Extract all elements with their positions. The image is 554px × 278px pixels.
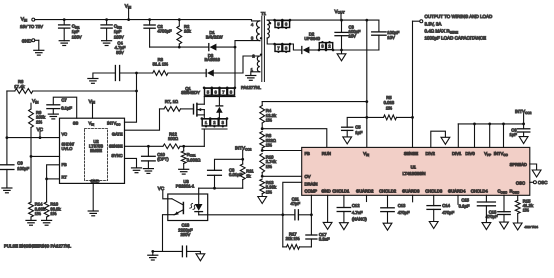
ground (C7) xyxy=(48,113,58,115)
wire U2 GATE xyxy=(125,109,160,130)
ground (DIV2, triangle) xyxy=(441,137,450,144)
svg-text:250V: 250V xyxy=(181,232,191,237)
svg-text:1%: 1% xyxy=(36,119,42,124)
svg-text:C9: C9 xyxy=(17,160,23,165)
wire OV (U1) xyxy=(262,175,302,177)
svg-text:0.018: 0.018 xyxy=(384,100,395,105)
capacitor C14 xyxy=(433,195,435,205)
wire SPREAD to ground xyxy=(530,164,537,170)
wire U2 SYNC to ground xyxy=(125,158,137,168)
capacitor C9 xyxy=(0,164,14,166)
svg-text:10k: 10k xyxy=(184,29,192,34)
wire rail to pin 4 xyxy=(252,20,260,21)
svg-text:SS: SS xyxy=(73,120,79,125)
svg-text:PULSE ENGINEERING PA1277NL: PULSE ENGINEERING PA1277NL xyxy=(4,244,72,249)
T1 primary bias winding 2-1 xyxy=(257,56,259,72)
svg-text:1%: 1% xyxy=(50,211,56,216)
svg-text:DIV0: DIV0 xyxy=(465,151,475,156)
wire output terminal riser xyxy=(412,21,414,117)
wire FB/RT xyxy=(47,165,60,179)
capacitor C2 xyxy=(148,18,151,21)
ground (U2 GND) xyxy=(88,210,98,212)
svg-text:100V: 100V xyxy=(114,34,124,39)
capacitor C10 xyxy=(147,146,149,156)
resistor R8 xyxy=(260,132,265,149)
resistor R14 xyxy=(30,156,32,202)
svg-text:R7, 1Ω: R7, 1Ω xyxy=(165,99,178,104)
svg-text:Si8848DY: Si8848DY xyxy=(181,90,200,95)
svg-text:LT4180EGN: LT4180EGN xyxy=(403,171,426,176)
svg-text:1%: 1% xyxy=(523,208,529,213)
ground (input) xyxy=(34,49,44,51)
wire DIV2 to ground xyxy=(431,131,446,147)
wire VOUT sense drop xyxy=(366,20,368,147)
capacitor C3 xyxy=(340,19,343,22)
opto transistor xyxy=(182,203,184,214)
svg-text:18V TO 72V: 18V TO 72V xyxy=(20,24,43,29)
svg-text:GUARD4: GUARD4 xyxy=(448,189,466,194)
svg-text:0.1µF: 0.1µF xyxy=(61,106,72,111)
ground (C18 secondary, triangle) xyxy=(196,254,205,261)
svg-text:1000µF LOAD CAPACITANCE: 1000µF LOAD CAPACITANCE xyxy=(425,36,486,41)
wire COMP xyxy=(310,195,312,215)
resistor R10 xyxy=(260,154,265,173)
svg-text:51.1 1%: 51.1 1% xyxy=(153,62,169,67)
capacitor C16 xyxy=(503,195,505,211)
ground (C15, triangle) xyxy=(482,223,491,230)
resistor R16 xyxy=(46,179,48,202)
svg-text:1%: 1% xyxy=(266,118,272,123)
svg-text:3.3nF: 3.3nF xyxy=(319,236,330,241)
opto coupling arrows xyxy=(190,203,193,208)
T1 pins 3 2 xyxy=(319,43,325,50)
svg-text:1µF: 1µF xyxy=(509,132,517,137)
OSC terminal xyxy=(530,181,534,183)
svg-text:50V: 50V xyxy=(116,50,124,55)
svg-text:3.3V, 3A: 3.3V, 3A xyxy=(425,21,442,26)
svg-text:COMP: COMP xyxy=(305,189,318,194)
T1 primary winding 4-3 xyxy=(257,21,260,41)
ground (C10) xyxy=(143,168,153,170)
ground (SYNC) xyxy=(132,167,142,169)
svg-text:BAV21W: BAV21W xyxy=(206,34,223,39)
svg-text:4.7nF: 4.7nF xyxy=(352,210,363,215)
resistor R11 xyxy=(241,158,244,161)
svg-text:C15: C15 xyxy=(461,197,469,202)
ground (C9) xyxy=(2,187,12,189)
svg-text:RT: RT xyxy=(62,174,68,179)
wire opto collector xyxy=(163,191,172,199)
svg-text:SENSE: SENSE xyxy=(404,151,418,156)
svg-text:10V: 10V xyxy=(387,35,395,40)
ground (RCS1) xyxy=(179,168,189,170)
svg-text:100V: 100V xyxy=(72,34,82,39)
svg-text:GND: GND xyxy=(22,38,32,43)
svg-text:CHOLD2: CHOLD2 xyxy=(379,189,397,194)
ground (C5, triangle) xyxy=(343,137,352,144)
ground (C12, triangle) xyxy=(340,223,349,230)
wire sense top to divider xyxy=(262,101,367,103)
ground (R13, triangle) xyxy=(258,197,267,204)
svg-text:SENSE: SENSE xyxy=(109,143,123,148)
T1 core xyxy=(261,16,263,81)
T1 pins 5 6 xyxy=(275,21,282,28)
T1 secondary winding xyxy=(267,20,269,38)
wire FB (U1) xyxy=(262,150,302,152)
capacitor C8 xyxy=(215,159,243,170)
output terminal xyxy=(420,20,423,23)
svg-text:CHOLD4: CHOLD4 xyxy=(471,189,489,194)
svg-text:100pF: 100pF xyxy=(17,166,29,171)
capacitor C6 xyxy=(523,124,525,129)
ground (C6, triangle) xyxy=(519,137,528,144)
svg-text:C12: C12 xyxy=(352,203,360,208)
svg-text:SPREAD: SPREAD xyxy=(510,162,527,167)
wire U2 GND xyxy=(92,183,94,211)
svg-text:(NANO): (NANO) xyxy=(352,216,367,221)
wire pin 2 to D3 xyxy=(243,56,260,73)
ground (C16, triangle) xyxy=(500,222,509,229)
Q1 MOSFET symbol xyxy=(193,104,195,114)
resistor R2 xyxy=(178,18,181,21)
wire opto LED cathode to drain node xyxy=(198,212,200,215)
wire pin 1 to ground xyxy=(251,72,260,76)
Q1 body diode xyxy=(218,97,220,106)
ground (C14, triangle) xyxy=(429,222,438,229)
wire U1 GND pin xyxy=(327,195,329,222)
svg-text:PS2801-1: PS2801-1 xyxy=(176,183,195,188)
svg-text:FB: FB xyxy=(305,151,311,156)
wire drain vertical xyxy=(234,47,236,88)
capacitor C11 xyxy=(281,213,284,216)
capacitor C5 xyxy=(347,117,367,127)
T1 pins 7 8 xyxy=(275,44,282,51)
svg-text:C7: C7 xyxy=(61,97,67,102)
svg-text:GND: GND xyxy=(321,189,330,194)
svg-text:C5: C5 xyxy=(355,124,361,129)
svg-text:C14: C14 xyxy=(442,203,450,208)
ground (R16) xyxy=(42,219,52,221)
op-amp U1 LT4180EGN xyxy=(302,147,530,195)
ground (U1 GND, triangle) xyxy=(323,222,332,229)
svg-text:100Ω: 100Ω xyxy=(168,136,178,141)
svg-text:1%: 1% xyxy=(266,189,272,194)
opto LED xyxy=(198,188,200,204)
svg-text:20k 1%: 20k 1% xyxy=(286,236,300,241)
wire secondary bottom xyxy=(267,38,293,44)
capacitor C7 soft-start xyxy=(53,97,76,118)
svg-text:1%: 1% xyxy=(266,143,272,148)
svg-text:CHOLD3: CHOLD3 xyxy=(425,189,443,194)
resistor RCS1 xyxy=(183,146,185,151)
svg-text:1%: 1% xyxy=(386,105,392,110)
wire snubber bottom xyxy=(150,46,209,48)
capacitor output 100uF xyxy=(365,19,368,22)
svg-text:17.4k: 17.4k xyxy=(14,84,25,89)
svg-text:470pF: 470pF xyxy=(398,210,410,215)
capacitor C15 xyxy=(485,195,487,202)
op-amp U2 LT3758 controller xyxy=(60,118,125,183)
svg-text:U1: U1 xyxy=(411,164,417,169)
capacitor CIN1 xyxy=(63,18,66,21)
wire U2 SENSE xyxy=(125,145,164,147)
svg-text:VC: VC xyxy=(158,186,165,191)
resistor R15 xyxy=(517,195,519,200)
ground (R14) xyxy=(26,219,36,221)
capacitor CIN2 xyxy=(105,18,108,21)
wire U2 INTVCC xyxy=(125,73,137,122)
capacitor C13 xyxy=(387,195,389,208)
svg-text:GUARD2: GUARD2 xyxy=(356,189,374,194)
svg-text:4700pF: 4700pF xyxy=(157,29,172,34)
svg-text:4180 TA04: 4180 TA04 xyxy=(525,225,539,229)
capacitor C12 xyxy=(343,195,345,207)
svg-text:UPS840: UPS840 xyxy=(304,36,320,41)
svg-text:1µF: 1µF xyxy=(72,29,80,34)
svg-text:RUN: RUN xyxy=(322,151,331,156)
resistor R4 xyxy=(261,102,263,106)
wire secondary top / VOUT rail xyxy=(267,19,379,21)
svg-text:DRAIN: DRAIN xyxy=(305,181,318,186)
svg-text:EMSE: EMSE xyxy=(90,148,102,153)
wire GUARD4 stub xyxy=(457,195,459,204)
svg-text:DIV2: DIV2 xyxy=(426,151,436,156)
svg-text:47pF: 47pF xyxy=(291,201,301,206)
svg-text:1%: 1% xyxy=(266,164,272,169)
ground (C3, triangle) xyxy=(337,54,346,61)
svg-text:1µF: 1µF xyxy=(355,130,363,135)
ground (C13, triangle) xyxy=(383,223,392,230)
svg-text:OUTPUT TO WIRING AND LOAD: OUTPUT TO WIRING AND LOAD xyxy=(425,14,494,19)
wire INTVCC bus xyxy=(458,123,523,125)
svg-text:(OPT): (OPT) xyxy=(157,157,169,162)
svg-text:UVLO: UVLO xyxy=(62,146,73,151)
svg-text:1µF: 1µF xyxy=(114,29,122,34)
svg-text:FB: FB xyxy=(62,162,67,167)
svg-text:0.008Ω: 0.008Ω xyxy=(187,158,201,163)
svg-text:GND: GND xyxy=(91,179,100,184)
wire GUARD2 stub xyxy=(366,195,368,201)
wire SENSE pin xyxy=(412,117,414,147)
svg-text:SYNC: SYNC xyxy=(111,153,122,158)
ground (C18 primary) xyxy=(148,254,158,256)
svg-text:OSC: OSC xyxy=(516,180,525,185)
wire RUN xyxy=(262,129,327,148)
svg-text:DIV1: DIV1 xyxy=(452,151,462,156)
wire SHDN/UVLO xyxy=(30,155,33,158)
svg-text:C13: C13 xyxy=(398,203,406,208)
wire: VIN rail xyxy=(35,19,252,21)
ground (SPREAD, triangle) xyxy=(532,170,541,177)
Q1 source pins 1 2 3 xyxy=(203,115,205,119)
svg-text:VC: VC xyxy=(62,132,68,137)
ground (C4) xyxy=(88,78,98,80)
svg-text:GUARD3: GUARD3 xyxy=(402,189,420,194)
svg-text:BAS516: BAS516 xyxy=(205,57,221,62)
svg-text:OSC: OSC xyxy=(538,180,548,185)
svg-text:GATE: GATE xyxy=(112,132,123,137)
svg-text:CHOLD1: CHOLD1 xyxy=(332,189,350,194)
wire to output gnd node xyxy=(333,49,379,51)
svg-text:PA1277NL: PA1277NL xyxy=(241,85,262,90)
resistor R13 xyxy=(260,179,265,194)
svg-text:T1: T1 xyxy=(261,11,267,16)
svg-text:10V: 10V xyxy=(349,33,357,38)
wire GUARD3 stub xyxy=(412,195,414,202)
wire pin 3 to drain node xyxy=(235,41,260,48)
svg-text:1%: 1% xyxy=(35,211,41,216)
svg-text:470pF: 470pF xyxy=(486,214,498,219)
svg-text:470pF: 470pF xyxy=(442,210,454,215)
wire DRAIN xyxy=(283,182,302,215)
svg-text:OV: OV xyxy=(305,174,311,179)
Q1 drain pins 5 6 7 8 xyxy=(204,87,235,89)
ground (R15, triangle) xyxy=(513,223,522,230)
wire opto emitter to gnd xyxy=(163,215,175,252)
ground (T1 pin1) xyxy=(246,75,256,77)
svg-text:0.1µF: 0.1µF xyxy=(459,203,470,208)
